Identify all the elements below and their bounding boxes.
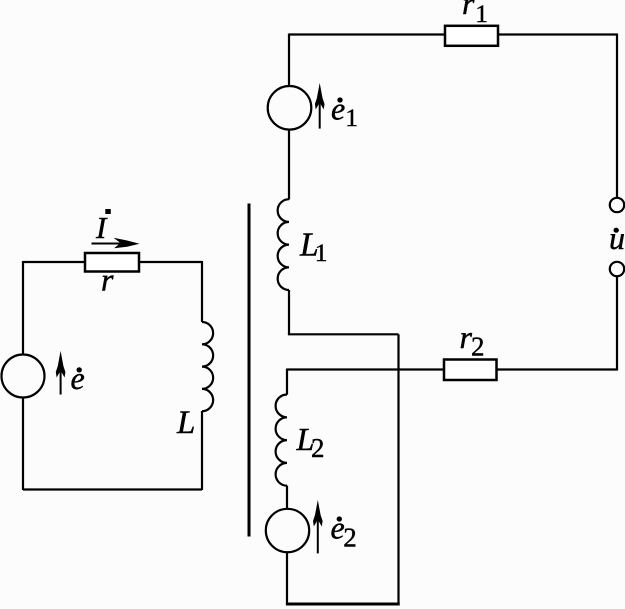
svg-text:r: r [462, 0, 475, 21]
resistor r [85, 253, 139, 272]
wire: secondary bottom wire [286, 603, 400, 606]
wire: source e2 down to bottom wire [286, 552, 288, 604]
dot of I [105, 209, 111, 214]
voltage arrow of e2 [317, 518, 319, 553]
terminal 2 (lower output circle) [610, 262, 624, 276]
wire: right side of secondary loop down [397, 334, 399, 604]
voltage arrow of e [60, 370, 62, 395]
svg-text:1: 1 [345, 103, 358, 132]
current arrow of I [92, 243, 134, 245]
inductor L (4 right-facing bumps) [202, 322, 213, 411]
svg-text:e: e [331, 91, 345, 127]
wire: left loop left side lower [22, 398, 24, 491]
wire: left loop left side upper [22, 261, 24, 355]
wire: r2 wire right segment [497, 368, 618, 370]
wire: left loop top-left segment [23, 261, 85, 263]
terminal 1 (upper output circle) [610, 198, 624, 212]
wire: right edge lower (terminal 2 to r2 wire) [616, 276, 618, 370]
voltage arrow of e1 [319, 101, 321, 129]
svg-text:r: r [101, 262, 114, 298]
svg-text:1: 1 [475, 0, 488, 28]
svg-text:u: u [609, 220, 625, 256]
inductor L2 (4 left-facing bumps) [276, 395, 287, 486]
dot of u [614, 228, 619, 233]
wire: top wire right segment [498, 33, 617, 35]
svg-text:2: 2 [311, 433, 325, 463]
dot of e [77, 367, 82, 372]
source e2 (circle) [266, 509, 309, 552]
wire: from source e1 down to inductor L1 [288, 130, 290, 200]
wire: right edge upper (top wire to terminal 1) [616, 34, 618, 198]
inductor L1 (4 left-facing bumps) [278, 199, 289, 290]
svg-text:I: I [95, 210, 108, 245]
wire: r2 wire left segment [287, 368, 444, 370]
core bar [248, 204, 251, 537]
wire: left loop top-right segment [139, 261, 202, 263]
wire: L2 branch top corner down [286, 369, 288, 395]
dot of e2 [337, 516, 342, 521]
wire: L1 bottom down to jog [288, 290, 290, 334]
svg-text:e: e [71, 360, 85, 396]
wire: jog horizontal to x=398 [288, 333, 399, 335]
svg-text:1: 1 [315, 238, 328, 267]
wire: from top wire down to source e1 [288, 34, 290, 87]
wire: L2 bottom to source e2 [286, 486, 288, 509]
wire: left loop right side upper [201, 261, 203, 322]
dot of e1 [337, 97, 342, 102]
resistor r1 [445, 26, 498, 46]
resistor r2 [444, 360, 497, 381]
svg-text:2: 2 [343, 523, 357, 553]
svg-text:2: 2 [471, 332, 485, 362]
source e1 (circle) [268, 86, 312, 130]
wire: top wire left segment [289, 33, 445, 35]
wire: left loop bottom [23, 488, 202, 490]
source e (circle) [2, 355, 45, 398]
wire: left loop right side lower [201, 411, 203, 490]
svg-text:L: L [176, 405, 195, 441]
